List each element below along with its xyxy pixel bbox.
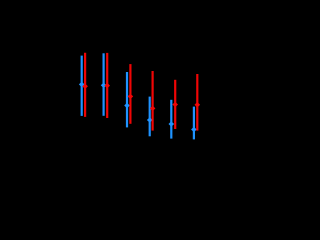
blue marker 1 bbox=[79, 82, 85, 88]
blue error bar 2 bbox=[102, 53, 104, 116]
blue error bar 1 bbox=[81, 56, 83, 116]
red marker 6 bbox=[195, 102, 201, 108]
red error bar 4 bbox=[152, 71, 154, 131]
blue error bar 5 bbox=[170, 100, 172, 139]
blue marker 4 bbox=[147, 117, 153, 123]
red error bar 2 bbox=[106, 53, 108, 118]
red marker 4 bbox=[150, 106, 156, 112]
red marker 1 bbox=[82, 84, 88, 90]
red marker 2 bbox=[104, 83, 110, 89]
red error bar 1 bbox=[84, 53, 86, 117]
blue marker 3 bbox=[124, 103, 130, 109]
blue marker 2 bbox=[101, 83, 107, 89]
blue error bar 4 bbox=[149, 97, 151, 137]
red error bar 3 bbox=[129, 64, 131, 124]
blue marker 6 bbox=[191, 127, 197, 133]
blue error bar 6 bbox=[193, 107, 195, 140]
red marker 5 bbox=[172, 102, 178, 108]
red error bar 5 bbox=[174, 80, 176, 129]
blue marker 5 bbox=[169, 121, 175, 127]
red error bar 6 bbox=[196, 74, 198, 131]
blue error bar 3 bbox=[126, 72, 128, 127]
red marker 3 bbox=[128, 94, 134, 100]
